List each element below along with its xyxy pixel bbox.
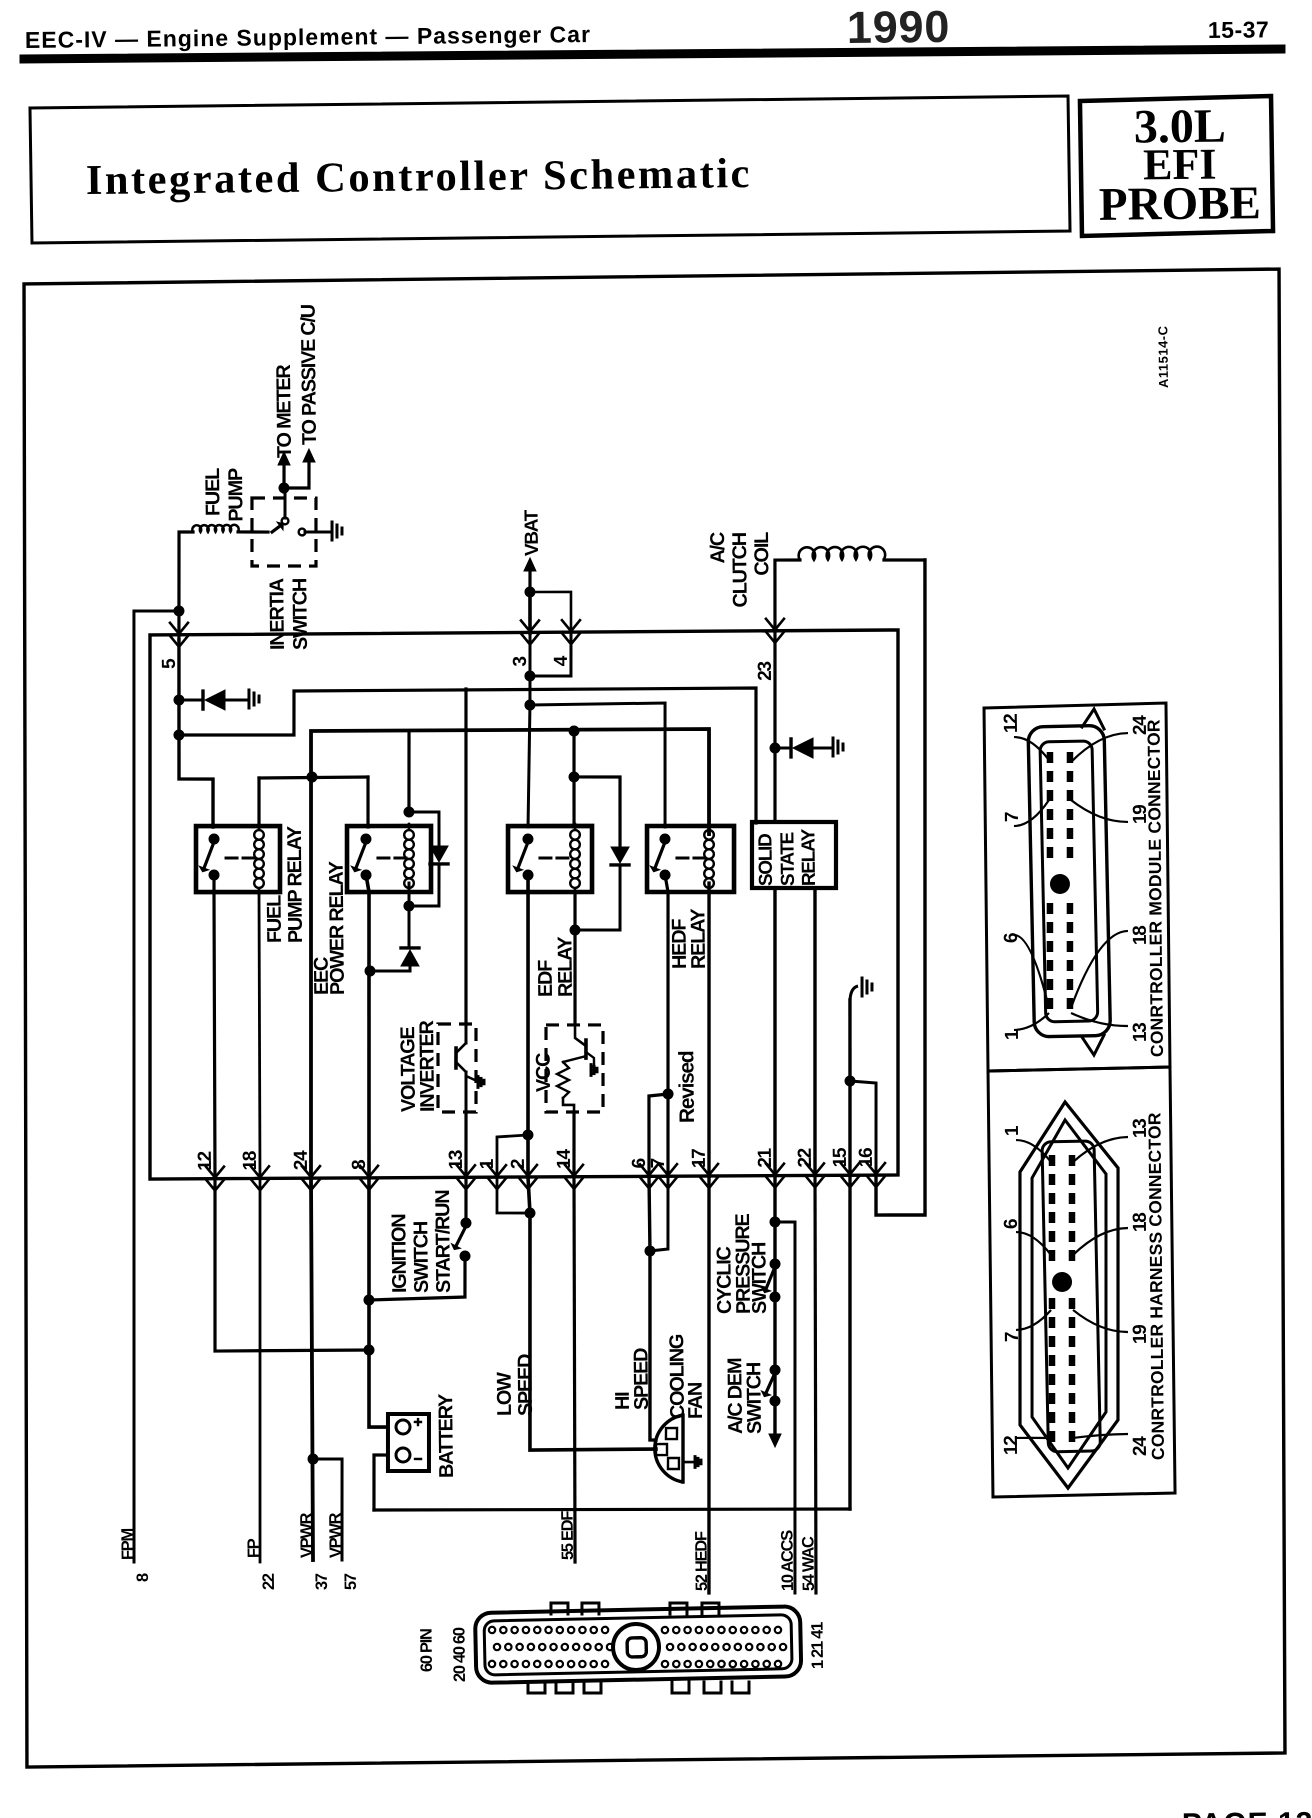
svg-text:LOW: LOW	[494, 1372, 516, 1416]
relay K3 EDF relay	[507, 824, 592, 895]
svg-text:FPM: FPM	[119, 1528, 137, 1560]
svg-text:CONRTROLLER HARNESS CONNECTOR: CONRTROLLER HARNESS CONNECTOR	[1144, 1112, 1168, 1460]
node VPWR split	[307, 1453, 318, 1464]
label TO PASSIVE C/U	[298, 304, 321, 445]
svg-text:60 PIN: 60 PIN	[418, 1629, 436, 1672]
diode D2 (EEC flyback)	[430, 846, 448, 864]
label TO METER	[273, 364, 296, 459]
svg-text:20 40 60: 20 40 60	[450, 1627, 469, 1682]
svg-text:15: 15	[830, 1147, 851, 1167]
wire pin 2 to cooling fan low	[527, 1176, 656, 1451]
terminal label VPWR 57	[327, 1512, 361, 1590]
transistor Q1 (voltage inverter)	[455, 1024, 484, 1112]
svg-text:15-37: 15-37	[1208, 16, 1270, 43]
wire pin 23 to clutch coil	[774, 560, 801, 640]
svg-text:22: 22	[260, 1573, 278, 1590]
header rule	[20, 42, 1285, 66]
voltage inverter U1 box	[437, 1024, 477, 1113]
node pins 1/2 bracket	[522, 1129, 533, 1140]
label 20 40 60	[450, 1627, 469, 1682]
wire ACCS branch	[775, 1222, 799, 1593]
label VBAT	[522, 509, 543, 556]
60-pin EEC connector J1	[475, 1600, 802, 1695]
solid state relay U3 box	[751, 821, 836, 889]
node EEC switch line junction	[364, 965, 375, 976]
label 1 21 41	[808, 1622, 826, 1669]
pin 7 (controller bottom edge)	[648, 1158, 677, 1188]
terminal label 52 HEDF	[692, 1531, 711, 1591]
title box	[30, 96, 1070, 243]
svg-text:SPEED: SPEED	[630, 1348, 653, 1410]
wire SSR out to pin 21	[772, 888, 778, 1176]
svg-text:22: 22	[795, 1148, 816, 1167]
label LOW SPEED	[493, 1354, 537, 1417]
controller module connector body	[1028, 709, 1111, 1056]
page number 15-37	[1208, 16, 1270, 43]
node pins 1/2 below edge	[524, 1207, 535, 1218]
svg-text:VBAT: VBAT	[522, 509, 543, 556]
terminal label FPM 8	[119, 1528, 152, 1582]
label INERTIA SWITCH	[266, 578, 312, 651]
svg-text:FUEL: FUEL	[202, 468, 225, 516]
svg-text:SPEED: SPEED	[514, 1354, 537, 1416]
pin 2 (controller bottom edge)	[508, 1159, 537, 1189]
svg-text:FAN: FAN	[685, 1382, 707, 1419]
label A/C DEM SWITCH	[724, 1358, 766, 1435]
wire pin 8 to battery	[366, 1178, 387, 1428]
diode D5 (A/C clamp)	[775, 738, 832, 759]
fuel pump coil L1	[192, 525, 268, 533]
relay K4 HEDF relay	[646, 824, 734, 895]
svg-text:FP: FP	[245, 1538, 263, 1558]
wire fuel pump feed riser	[178, 532, 194, 640]
controller module connector box	[984, 703, 1170, 1071]
page header year 1990	[847, 1, 951, 53]
label CONRTROLLER HARNESS CONNECTOR	[1144, 1112, 1168, 1460]
battery BAT box	[387, 1414, 429, 1472]
svg-text:SWITCH: SWITCH	[410, 1221, 433, 1293]
ignition switch S2	[368, 1217, 472, 1300]
ground G4 (pins 15/16)	[850, 978, 872, 1002]
relay K1 fuel pump relay	[195, 824, 280, 895]
label EDF RELAY	[534, 936, 577, 998]
wire pin 18 to FP terminal	[256, 1178, 264, 1562]
wire K3 coil to VCC	[574, 892, 577, 1025]
wire pin 12 to battery line	[213, 1177, 369, 1352]
wire K4 coil to pin 17	[706, 883, 712, 1176]
pin 1 (controller bottom edge)	[477, 1158, 506, 1189]
node pin23 diode junction	[769, 742, 780, 753]
wire EEC coil flyback	[408, 812, 440, 907]
svg-text:IGNITION: IGNITION	[388, 1214, 411, 1294]
wire pin 22 to WAC terminal	[812, 1175, 820, 1593]
page footer	[1182, 1806, 1312, 1818]
svg-text:COIL: COIL	[751, 532, 773, 576]
wire K1 coil to pin 18	[257, 892, 262, 1179]
svg-text:10 ACCS: 10 ACCS	[778, 1530, 797, 1591]
svg-text:7: 7	[1002, 812, 1023, 822]
wire D4 bottom	[574, 865, 620, 930]
label A/C CLUTCH COIL	[707, 532, 774, 608]
pin 21 (controller bottom edge)	[755, 1147, 784, 1188]
terminal label VPWR 37	[298, 1512, 332, 1590]
figure number A11514-C	[1155, 325, 1171, 388]
label EEC POWER RELAY	[310, 860, 349, 995]
svg-text:8: 8	[349, 1160, 370, 1170]
svg-text:STATE: STATE	[777, 832, 799, 886]
svg-text:2: 2	[508, 1159, 529, 1169]
transistor Q2 and resistor R1 (VCC)	[556, 1025, 597, 1112]
wire pin 15 to battery negative	[846, 1175, 853, 1509]
ground G1 (diode D1)	[249, 690, 259, 708]
svg-text:Integrated Controller Schemati: Integrated Controller Schematic	[86, 150, 753, 204]
label VCC	[533, 1053, 555, 1092]
svg-text:6: 6	[629, 1158, 650, 1168]
svg-text:TO METER: TO METER	[273, 364, 296, 459]
relay K2 EEC power relay	[346, 824, 431, 895]
wire pin 6 bracket	[648, 1094, 669, 1176]
svg-text:PROBE: PROBE	[1099, 177, 1261, 231]
diode D4 (EDF flyback)	[611, 847, 629, 865]
wire K1 switch to pin 12	[212, 875, 217, 1179]
VCC regulator U2 box	[545, 1024, 604, 1112]
label Revised	[675, 1051, 699, 1123]
node pin21/ACCS split	[769, 1216, 780, 1227]
svg-text:SWITCH: SWITCH	[743, 1362, 766, 1434]
wire to meter	[278, 452, 290, 492]
pin 12 (controller bottom edge)	[195, 1151, 224, 1191]
wire bus A (fuel pump net)	[178, 634, 758, 829]
wire pin 14 to EDF terminal	[571, 1177, 578, 1562]
svg-text:EDF: EDF	[535, 960, 557, 997]
svg-text:INERTIA: INERTIA	[266, 578, 289, 650]
wire SSR out to pin 22	[812, 888, 818, 1175]
wire pin 23 to SSR	[773, 640, 777, 822]
svg-text:BATTERY: BATTERY	[435, 1393, 458, 1478]
node pins 6/7 bracket	[662, 1088, 673, 1099]
svg-text:1990: 1990	[847, 1, 951, 53]
svg-text:37: 37	[313, 1573, 331, 1590]
label CYCLIC PRESSURE SWITCH	[713, 1213, 771, 1314]
wire bus A to voltage inverter	[462, 689, 469, 1024]
cyclic pressure switch S3	[761, 1258, 781, 1302]
VBAT arrow	[524, 558, 536, 592]
svg-text:1 21 41: 1 21 41	[808, 1622, 826, 1669]
A/C demand switch S4	[761, 1364, 781, 1447]
svg-text:13: 13	[446, 1150, 467, 1169]
wire battery negative bus	[374, 1505, 850, 1514]
svg-text:23: 23	[755, 661, 776, 680]
svg-text:POWER RELAY: POWER RELAY	[326, 860, 349, 995]
inertia switch S1 box	[251, 497, 316, 566]
svg-text:52 HEDF: 52 HEDF	[692, 1531, 711, 1591]
label VOLTAGE INVERTER	[397, 1019, 439, 1112]
wire ground to pin 15	[848, 1000, 852, 1175]
svg-text:18: 18	[240, 1151, 261, 1170]
node pins 15/16 bracket	[844, 1075, 855, 1086]
wire VPWR 57 branch	[313, 1459, 343, 1561]
controller harness connector body	[1017, 1101, 1122, 1488]
pin 23 (controller top edge)	[754, 619, 784, 681]
pin 13 (controller bottom edge)	[446, 1150, 475, 1190]
node ignition joins pin 8	[363, 1294, 374, 1305]
A/C clutch coil L2	[799, 546, 925, 561]
wire pin 17 to HEDF terminal	[705, 1176, 714, 1593]
engine variant text	[1098, 99, 1261, 231]
wire pin 24 to VPWR	[309, 1178, 315, 1560]
wire FPM tap	[124, 611, 189, 1562]
wire VBAT to pin 4	[530, 592, 571, 634]
terminal label 54 WAC	[799, 1536, 818, 1591]
terminal label FP 22	[245, 1538, 278, 1590]
wire pin 4 link	[530, 633, 572, 676]
wire pin 13 to ignition switch	[464, 1177, 468, 1223]
svg-text:RELAY: RELAY	[687, 908, 710, 970]
controller box outline	[144, 627, 903, 1183]
svg-text:SWITCH: SWITCH	[748, 1242, 771, 1314]
svg-text:SOLID: SOLID	[755, 834, 777, 886]
svg-text:7: 7	[1002, 1332, 1023, 1342]
svg-text:START/RUN: START/RUN	[432, 1190, 455, 1293]
wire battery negative lead	[373, 1455, 388, 1510]
pin 3 (controller top edge)	[509, 620, 539, 666]
wire pin 16 bracket	[850, 1081, 877, 1176]
svg-text:12: 12	[195, 1151, 216, 1170]
label SOLID STATE RELAY	[755, 828, 820, 886]
node pins 6/7 below edge	[644, 1245, 655, 1256]
node bus B / pin24	[306, 771, 317, 782]
label FUEL PUMP	[202, 468, 248, 522]
node EEC coil top	[403, 806, 414, 817]
svg-text:54 WAC: 54 WAC	[799, 1536, 818, 1591]
wire K3 switch to pin 2	[525, 875, 531, 1177]
wire pin 6 to cooling fan hi	[647, 1176, 656, 1440]
svg-text:14: 14	[554, 1148, 575, 1168]
svg-text:12: 12	[1001, 1436, 1022, 1455]
node pin5-diode junction	[173, 694, 184, 705]
svg-text:24: 24	[291, 1150, 312, 1170]
wire to HEDF switch	[530, 703, 666, 828]
pin 24 (controller bottom edge)	[291, 1150, 320, 1191]
svg-text:FUEL: FUEL	[264, 895, 287, 943]
svg-text:PUMP RELAY: PUMP RELAY	[284, 825, 307, 943]
node VBAT split	[524, 586, 535, 597]
title text	[86, 150, 753, 204]
node EEC coil bottom	[403, 900, 414, 911]
wire pin 3 to EDF switch	[526, 633, 532, 827]
label 60 PIN	[418, 1629, 436, 1672]
harness connector pin numbers	[998, 1119, 1155, 1458]
node bus B EDF branch	[568, 725, 579, 736]
svg-text:55 EDF: 55 EDF	[558, 1511, 577, 1561]
label BATTERY	[435, 1393, 458, 1478]
pin 22 (controller bottom edge)	[795, 1148, 824, 1188]
svg-text:3: 3	[510, 656, 531, 666]
page header text	[25, 21, 591, 53]
ground G3 (diode D5)	[833, 738, 843, 756]
wire pins 1/2 join	[497, 1177, 530, 1214]
diode D3 (EEC series)	[401, 948, 419, 966]
node EDF coil/diode branch	[568, 771, 579, 782]
pin 6 (controller bottom edge)	[629, 1158, 658, 1188]
node pin3/4 junction	[524, 670, 535, 681]
wire pin 7 below edge	[649, 1176, 669, 1251]
wire VBAT to pin 3	[528, 592, 532, 633]
svg-text:8: 8	[134, 1573, 152, 1582]
label HEDF RELAY	[668, 908, 710, 970]
svg-text:17: 17	[689, 1149, 710, 1168]
label CONRTROLLER MODULE CONNECTOR	[1143, 719, 1167, 1057]
wire D3 to switch line	[370, 966, 410, 971]
svg-text:VPWR: VPWR	[298, 1512, 316, 1558]
module connector pin numbers	[999, 712, 1155, 1043]
node bus A corner	[173, 729, 184, 740]
svg-text:16: 16	[856, 1148, 877, 1167]
pin 18 (controller bottom edge)	[240, 1151, 269, 1191]
terminal label 55 EDF	[558, 1511, 577, 1561]
svg-text:6: 6	[1001, 933, 1022, 943]
label COOLING FAN	[666, 1334, 707, 1420]
wire to passive c/u	[284, 449, 316, 488]
svg-text:INVERTER: INVERTER	[416, 1019, 439, 1112]
node HEDF branch junction	[524, 699, 535, 710]
diode D1	[179, 690, 248, 711]
svg-text:VCC: VCC	[533, 1053, 555, 1092]
node fuel pump output junction	[278, 482, 289, 493]
svg-text:VPWR: VPWR	[327, 1512, 345, 1558]
wire bus B (coil feed net)	[258, 727, 714, 1178]
svg-text:21: 21	[755, 1147, 776, 1167]
svg-text:PAGE 130: PAGE 130	[1182, 1806, 1312, 1818]
svg-text:RELAY: RELAY	[798, 828, 820, 886]
svg-text:6: 6	[1001, 1219, 1022, 1229]
controller harness connector box	[988, 1067, 1175, 1497]
svg-text:12: 12	[1001, 714, 1022, 733]
wire VCC to pin 14	[573, 1112, 574, 1177]
pin 8 (controller bottom edge)	[349, 1160, 378, 1190]
node fuel-pump/FPM junction	[173, 605, 184, 616]
label IGNITION SWITCH START/RUN	[388, 1190, 455, 1294]
wire EEC coil bottom	[408, 883, 409, 948]
pin 17 (controller bottom edge)	[689, 1149, 718, 1189]
svg-text:PUMP: PUMP	[225, 468, 248, 522]
wire K2 switch to pin 8	[366, 875, 372, 1178]
svg-text:57: 57	[342, 1573, 360, 1590]
pin 5 (controller top edge)	[158, 623, 188, 669]
node pin 12 joins pin 8	[363, 1344, 374, 1355]
svg-text:A/C: A/C	[707, 532, 729, 564]
cooling fan motor M1	[654, 1415, 701, 1482]
svg-text:A11514-C: A11514-C	[1155, 325, 1171, 388]
wire voltage inverter to pin 13	[465, 1112, 466, 1177]
pin 14 (controller bottom edge)	[554, 1148, 583, 1189]
pin 15 (controller bottom edge)	[830, 1147, 859, 1188]
wire pin 21 chain	[772, 1176, 777, 1432]
terminal label 10 ACCS	[778, 1530, 797, 1591]
battery terminals	[396, 1419, 422, 1462]
label FUEL PUMP RELAY	[263, 825, 307, 943]
pin 16 (controller bottom edge)	[856, 1148, 885, 1188]
inertia switch S1 contacts	[272, 491, 331, 535]
svg-text:SWITCH: SWITCH	[289, 578, 312, 650]
svg-text:CLUTCH: CLUTCH	[729, 532, 752, 607]
node EDF coil bottom	[569, 924, 580, 935]
label HI SPEED	[611, 1348, 653, 1411]
wire clutch coil return	[869, 560, 932, 1216]
wire K4 switch to pin 7	[665, 875, 671, 1176]
svg-text:TO PASSIVE C/U: TO PASSIVE C/U	[298, 304, 321, 445]
ground G2 (inertia switch)	[332, 522, 342, 540]
svg-text:7: 7	[648, 1158, 669, 1168]
wire pin 1 bracket	[497, 1135, 529, 1177]
svg-text:CONRTROLLER MODULE CONNECTOR: CONRTROLLER MODULE CONNECTOR	[1143, 719, 1167, 1057]
engine variant box	[1080, 96, 1273, 236]
pin 4 (controller top edge)	[550, 620, 580, 666]
svg-text:Revised: Revised	[675, 1051, 699, 1123]
